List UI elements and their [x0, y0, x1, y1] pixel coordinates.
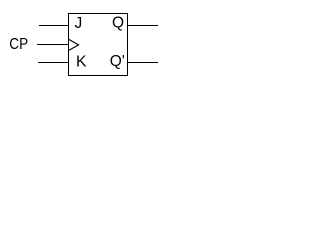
- svg-text:CP: CP: [9, 36, 28, 53]
- svg-text:J: J: [75, 15, 83, 32]
- svg-text:K: K: [76, 54, 87, 71]
- svg-text:Q': Q': [110, 53, 125, 70]
- svg-text:Q: Q: [112, 15, 124, 32]
